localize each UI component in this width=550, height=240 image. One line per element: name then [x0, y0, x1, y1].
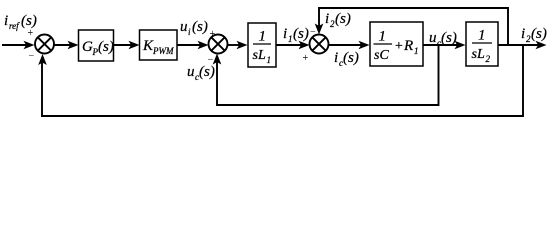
- block 1/sC + R1: [370, 22, 423, 66]
- block 1/sL1: [248, 23, 276, 67]
- wire GP to KPWM: [114, 41, 140, 50]
- svg-text:R: R: [403, 38, 413, 54]
- wire junction3 to block 1/sC+R1: [329, 41, 370, 50]
- wire outer feedback i2 to junction1: [38, 45, 523, 116]
- wire KPWM to junction2: [177, 41, 209, 50]
- svg-text:i: i: [521, 26, 525, 42]
- svg-text:2: 2: [486, 54, 491, 64]
- svg-text:−: −: [29, 51, 35, 62]
- svg-text:+: +: [394, 39, 403, 54]
- svg-text:i: i: [334, 50, 338, 66]
- wire block3 to junction3: [276, 41, 310, 50]
- node i_1(s) label: [283, 26, 309, 44]
- svg-text:(s): (s): [531, 26, 547, 42]
- svg-text:(s): (s): [441, 30, 457, 46]
- svg-text:−: −: [208, 55, 214, 66]
- svg-text:i: i: [325, 11, 329, 27]
- svg-text:1: 1: [379, 29, 387, 45]
- svg-text:(s): (s): [335, 11, 351, 27]
- node i_2(s) output label: [521, 26, 547, 44]
- svg-text:G: G: [82, 39, 93, 55]
- node u_c(s) label after block4: [429, 30, 457, 48]
- wire top feedback i2 to junction3: [315, 8, 508, 45]
- block GP(s): [79, 30, 114, 61]
- svg-text:(s): (s): [293, 26, 309, 42]
- summing junction 2: [209, 35, 228, 54]
- svg-text:(s): (s): [98, 39, 114, 55]
- svg-text:PWM: PWM: [152, 46, 174, 56]
- node u_i(s)+ label: [180, 19, 216, 40]
- svg-text:u: u: [429, 30, 437, 46]
- svg-text:1: 1: [288, 34, 293, 44]
- svg-text:1: 1: [478, 28, 486, 44]
- wire junction1 to GP block: [54, 41, 79, 50]
- wire block5 to output: [498, 41, 547, 50]
- svg-text:sC: sC: [374, 48, 389, 63]
- wire block4 to block5: [423, 41, 466, 50]
- svg-text:1: 1: [267, 55, 272, 65]
- summing junction 3: [310, 35, 329, 54]
- wire uc feedback to junction2: [213, 45, 439, 105]
- svg-text:+: +: [303, 53, 309, 64]
- svg-text:1: 1: [414, 46, 419, 56]
- svg-text:sL: sL: [472, 47, 485, 62]
- wire junction2 to block 1/sL1: [228, 41, 248, 50]
- node i_c(s) label: [334, 50, 359, 68]
- svg-text:(s): (s): [343, 50, 359, 66]
- svg-text:sL: sL: [253, 48, 266, 63]
- svg-text:(s): (s): [21, 13, 37, 29]
- svg-text:i: i: [283, 26, 287, 42]
- svg-text:i: i: [188, 27, 191, 37]
- svg-text:u: u: [180, 19, 188, 35]
- svg-text:1: 1: [259, 29, 267, 45]
- svg-text:i: i: [4, 13, 8, 29]
- svg-text:+: +: [28, 28, 34, 39]
- summing junction 1: [35, 35, 54, 54]
- block KPWM: [140, 30, 178, 60]
- block 1/sL2: [466, 22, 498, 66]
- node i_2(s) label at top feedback: [325, 11, 351, 29]
- svg-text:u: u: [187, 64, 195, 80]
- svg-text:(s): (s): [199, 64, 215, 80]
- node u_c(s) minus label below junction2: [187, 55, 215, 83]
- svg-text:(s): (s): [192, 19, 208, 35]
- wire input arrow into summing junction 1: [2, 41, 35, 50]
- svg-text:ref: ref: [9, 21, 20, 31]
- node i_ref(s) label: [4, 13, 37, 31]
